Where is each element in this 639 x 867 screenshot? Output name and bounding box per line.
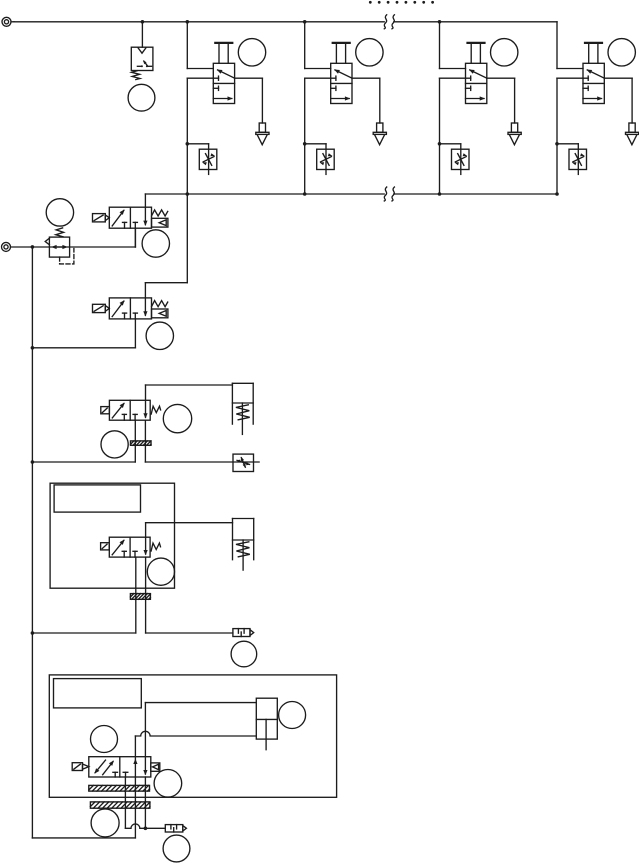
second muffler plate (hatched) (90, 802, 149, 808)
return spring of V3 (151, 406, 160, 414)
indicator circle of V4 (147, 558, 174, 585)
node: pressure switch tap on top rail (141, 20, 145, 24)
subsystem box B2 (49, 675, 336, 797)
node: main drop line tap (31, 245, 35, 249)
power source P2 (air supply, left) (2, 242, 11, 251)
wire bottom return rail (right part) (394, 193, 557, 195)
wire bottom-rail node down and into V2 outlet (arrow) (143, 194, 187, 317)
wire CYL3 rod side to V5 (line B, arrow up) (133, 736, 137, 777)
line-break marks on top rail (384, 15, 394, 29)
wire V4 supply port down (135, 557, 137, 633)
plunger actuator of unit 2 valve (333, 43, 350, 63)
node: unit 3 tap on top rail (438, 20, 442, 24)
indicator circle of CYL3 (279, 702, 306, 729)
wire unit 4 throttle branch (557, 144, 578, 175)
pressure switch PS1 with spring and indicator circle (128, 22, 155, 111)
pilot box of V1 (152, 218, 168, 227)
wire V4 exhaust to muffler TM1 (146, 632, 233, 634)
wire unit 4 valve second port to down-line (557, 78, 583, 194)
indicator circle below TM2 (163, 835, 190, 862)
indicator circle of V1 (142, 230, 169, 257)
label plate of box B2 (empty) (54, 679, 142, 708)
wire V5 exhaust port 2 down (L3) (144, 777, 146, 828)
indicator circle of regulator (46, 199, 73, 226)
indicator circle below V5 left (91, 809, 119, 837)
node: exhaust junction (144, 827, 148, 831)
blow nozzle of unit 1 (256, 123, 269, 145)
valve unit 4 (2-position plunger valve) (583, 63, 604, 103)
flow control valve of unit 4 (569, 149, 587, 169)
valve unit 2 (2-position plunger valve) (331, 63, 352, 103)
node: unit 2 tap on top rail (303, 20, 307, 24)
wire supply rail to V4 (32, 632, 135, 634)
wire unit 4 supply drop (556, 22, 558, 69)
muffler plate under V4 (hatched) (130, 594, 150, 600)
solenoid valve V4 (3/2) (109, 537, 150, 557)
blow nozzle of unit 4 (626, 123, 639, 145)
wire V5 supply line (L2) from bottom rail (134, 777, 136, 838)
wire V3 work port to cylinder CYL1 (arrow into valve) (143, 385, 232, 419)
pressure regulator REG1 (45, 228, 69, 257)
indicator circle right of V5 (154, 770, 182, 798)
node: unit 2 throttle branch (303, 142, 307, 146)
wire unit 1 throttle branch (187, 144, 208, 175)
pilot box right of V5 (151, 763, 160, 771)
wire V3 exhaust to flow control (145, 461, 259, 463)
indicator circle of unit 1 valve (238, 39, 265, 66)
wire top supply rail (right part) (394, 21, 557, 23)
wire V1 inlet down to supply line (134, 228, 136, 247)
wire unit 4 valve outlet to nozzle (604, 78, 632, 123)
wire CYL3 head side to V5 (line A, arrow into valve) (143, 703, 147, 776)
indicator circle of unit 3 valve (491, 39, 518, 66)
pilot box of V2 (152, 309, 168, 318)
exhaust muffler TM2 (165, 825, 186, 832)
blow nozzle of unit 2 (373, 123, 386, 145)
wire supply rail to V3 (32, 461, 135, 463)
return spring of V2 (152, 301, 168, 307)
solenoid valve V5 (4/2) (89, 757, 151, 777)
plunger actuator of unit 3 valve (468, 43, 485, 63)
wire bottom rail end into V1 outlet (arrow) (143, 194, 147, 226)
wire unit 3 supply drop (439, 22, 441, 69)
solenoid coil of V5 (72, 763, 89, 771)
flow control valve of unit 2 (317, 149, 335, 169)
wire unit 1 valve outlet to nozzle (235, 78, 263, 123)
blow nozzle of unit 3 (508, 123, 521, 145)
indicator circle above V5 (91, 726, 118, 753)
indicator circle of V2 (146, 322, 173, 349)
valve unit 3 (2-position plunger valve) (466, 63, 487, 103)
solenoid coil of V4 (101, 543, 110, 550)
wire unit 1 supply drop (186, 22, 188, 69)
node: unit 1 tap on top rail (186, 20, 190, 24)
node: unit 4 throttle branch (555, 142, 559, 146)
muffler plate under V5 (hatched) (89, 785, 150, 791)
drain pilot line of regulator (dashed) (60, 249, 74, 264)
node: unit 2 on bottom rail (303, 192, 307, 196)
solenoid coil of V1 (93, 214, 110, 222)
wire unit 2 supply to valve inlet (305, 68, 331, 70)
node: unit 1 throttle branch (186, 142, 190, 146)
flow control valve of unit 3 (452, 149, 470, 169)
node: unit 3 on bottom rail (438, 192, 442, 196)
wire source P2 to regulator and valve V1 riser (11, 228, 136, 247)
wire V5 exhaust port 1 down (L1) (124, 777, 126, 828)
continuation dots (top margin) (369, 1, 434, 4)
wire unit 3 supply to valve inlet (440, 68, 466, 70)
single-acting cylinder CYL1 (spring return) (232, 383, 253, 434)
node: V3 supply tap (31, 460, 35, 464)
wire V2 inlet to main supply line (32, 319, 135, 348)
indicator circle below V3 (101, 431, 128, 458)
node: V2 supply tap (31, 346, 35, 350)
valve unit 1 (2-position plunger valve) (213, 63, 234, 103)
flow control valve FC1 (233, 454, 254, 471)
solenoid valve V3 (3/2) (109, 400, 150, 420)
indicator circle of unit 2 valve (356, 39, 383, 66)
wire top supply rail (left part) (14, 21, 384, 23)
muffler plate under V3 (hatched) (131, 441, 152, 445)
wire unit 2 valve second port to down-line (305, 78, 331, 194)
plunger actuator of unit 4 valve (585, 43, 602, 63)
node: unit 1 on bottom rail (186, 192, 190, 196)
solenoid valve V2 (3/2) (109, 298, 151, 319)
wire V4 exhaust port down (145, 557, 147, 633)
wire bottom rail to V5 supply (32, 837, 135, 839)
wire unit 3 valve outlet to nozzle (487, 78, 515, 123)
node: unit 4 on bottom rail (555, 192, 559, 196)
wire unit 3 valve second port to down-line (440, 78, 466, 194)
indicator circle of unit 4 valve (608, 39, 635, 66)
wire unit 2 supply drop (304, 22, 306, 69)
solenoid coil of V2 (93, 304, 110, 312)
power source P1 (air supply, top-left) (2, 17, 14, 26)
single-acting cylinder CYL2 (spring return) (233, 519, 254, 571)
wire exhaust header to muffler TM2 (hops over L2) (125, 824, 165, 828)
return spring of V4 (151, 543, 160, 551)
wire bottom return rail (left part) (145, 193, 384, 195)
wire unit 2 throttle branch (305, 144, 326, 175)
plunger actuator of unit 1 valve (215, 43, 232, 63)
line-break marks on bottom rail (384, 187, 394, 201)
wire unit 1 supply to valve inlet (187, 68, 213, 70)
indicator circle right of V3 (163, 404, 191, 432)
wire unit 2 valve outlet to nozzle (352, 78, 380, 123)
wire V3 exhaust port down (144, 420, 146, 462)
wire unit 1 valve second port to down-line (187, 78, 213, 194)
wire unit 4 supply to valve inlet (557, 68, 583, 70)
wire V3 supply port down (134, 420, 136, 462)
label plate of box B1 (empty) (54, 485, 140, 512)
solenoid coil of V3 (101, 407, 110, 414)
return spring of V1 (152, 210, 168, 216)
node: unit 3 throttle branch (438, 142, 442, 146)
flow control valve of unit 1 (199, 149, 217, 169)
subsystem box B1 (50, 483, 174, 588)
solenoid valve V1 (3/2) (109, 207, 151, 228)
wire main vertical supply line (31, 247, 33, 838)
wire V4 work port to cylinder CYL2 (arrow into valve) (144, 523, 233, 556)
wire unit 3 throttle branch (440, 144, 461, 175)
indicator circle below TM1 (231, 641, 257, 667)
double-acting cylinder CYL3 (horizontal) (135, 698, 277, 750)
node: V4 supply tap (31, 631, 35, 635)
exhaust muffler TM1 (233, 629, 254, 637)
